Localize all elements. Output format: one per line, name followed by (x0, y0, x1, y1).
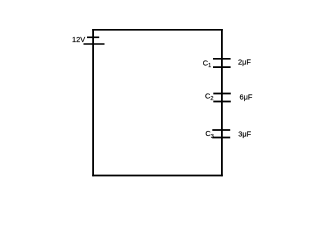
svg-text:12V: 12V (72, 35, 85, 44)
wire top (92, 29, 223, 31)
svg-text:C2: C2 (205, 91, 213, 102)
capacitor C1 (213, 59, 231, 67)
wire bottom (92, 175, 223, 177)
battery V1 (84, 37, 105, 44)
capacitor C3 (212, 130, 230, 138)
wire right (221, 29, 223, 176)
svg-text:3μF: 3μF (238, 130, 251, 139)
svg-text:C1: C1 (203, 58, 211, 69)
svg-text:2μF: 2μF (238, 58, 251, 67)
capacitor C2 (213, 94, 231, 102)
wire left (92, 29, 94, 176)
svg-text:6μF: 6μF (240, 92, 253, 101)
